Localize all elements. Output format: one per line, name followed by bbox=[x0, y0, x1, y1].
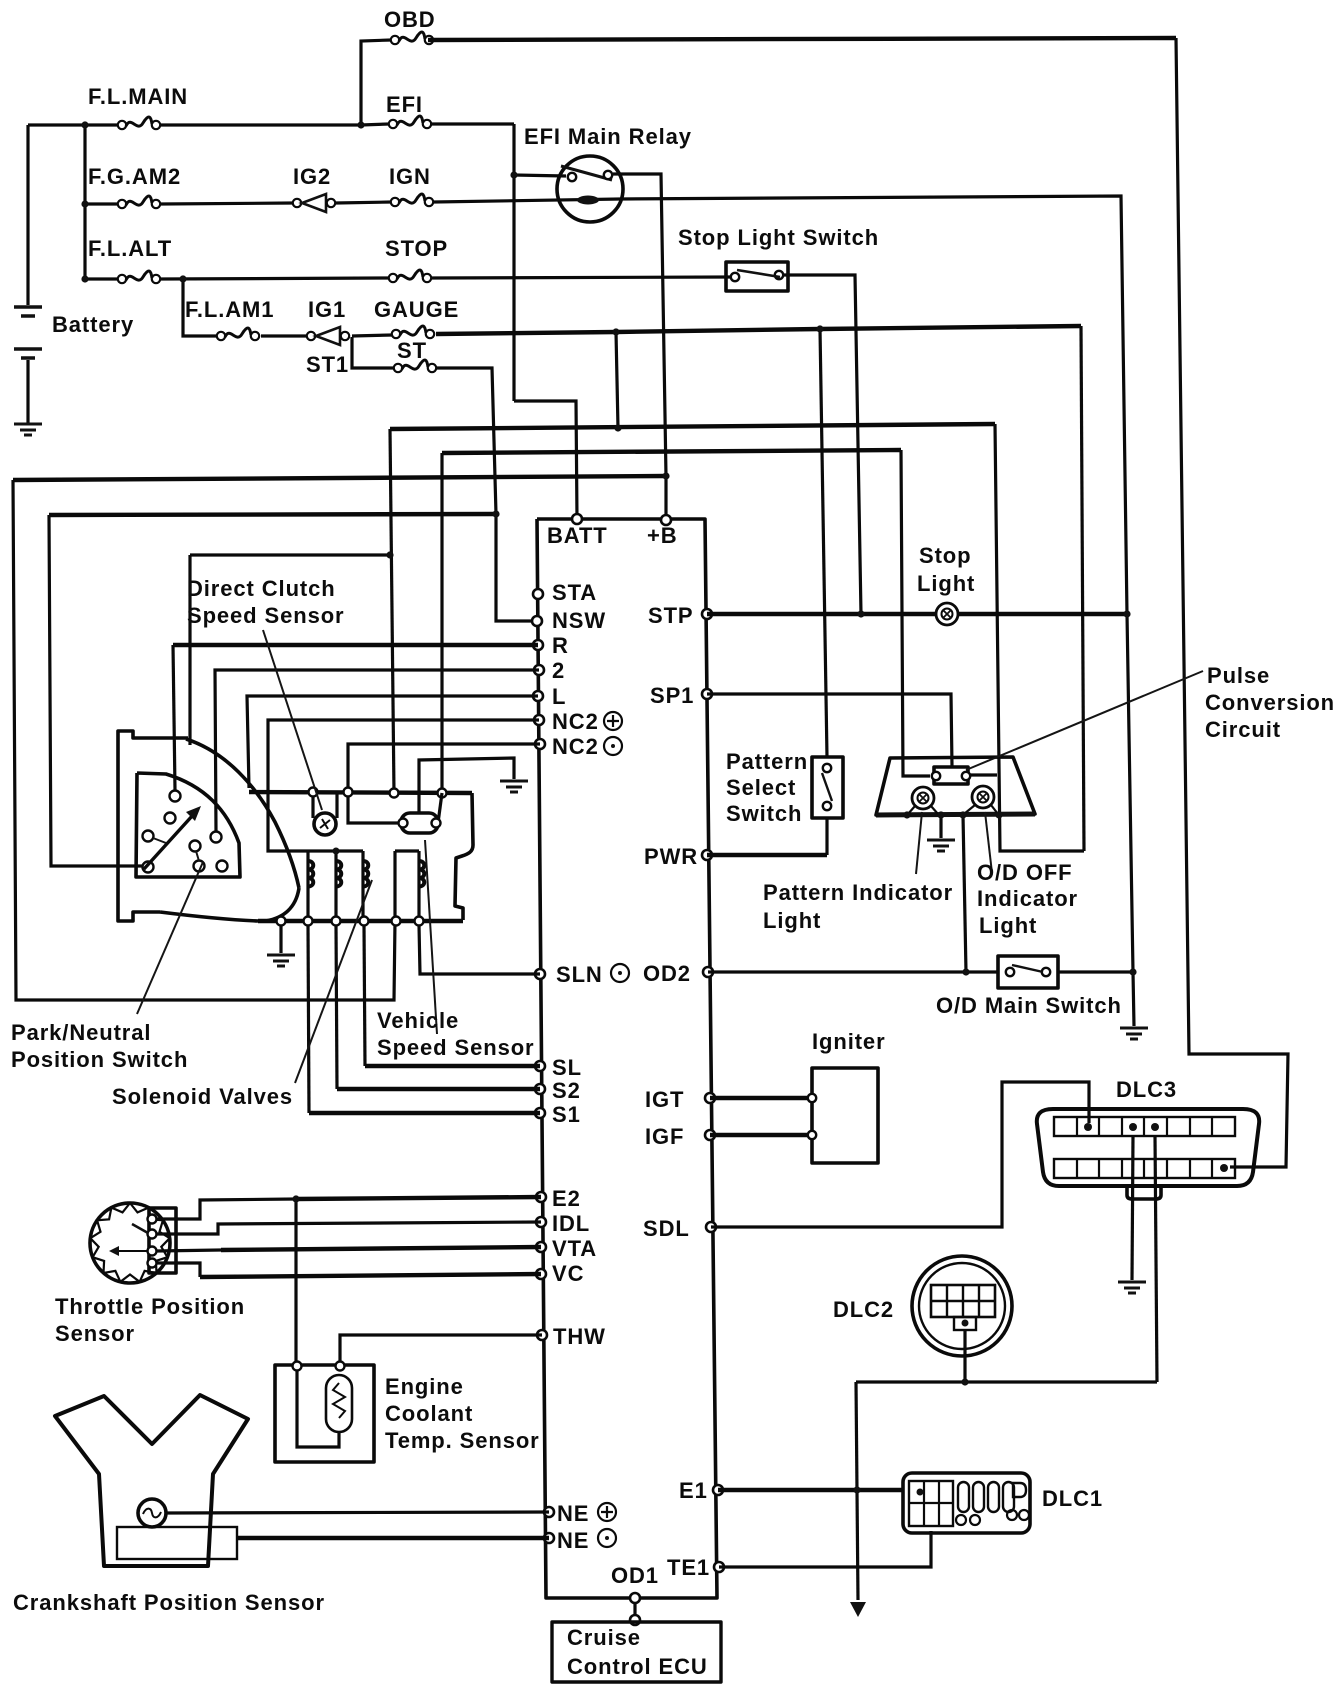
svg-text:SDL: SDL bbox=[643, 1216, 690, 1241]
svg-text:S2: S2 bbox=[552, 1078, 581, 1103]
svg-text:Solenoid Valves: Solenoid Valves bbox=[112, 1084, 293, 1109]
svg-text:IGN: IGN bbox=[389, 164, 431, 189]
svg-text:GAUGE: GAUGE bbox=[374, 297, 459, 322]
svg-text:STP: STP bbox=[648, 603, 694, 628]
svg-text:TE1: TE1 bbox=[667, 1555, 710, 1580]
svg-text:IDL: IDL bbox=[552, 1211, 590, 1236]
svg-text:SP1: SP1 bbox=[650, 683, 694, 708]
svg-text:Pulse: Pulse bbox=[1207, 663, 1270, 688]
svg-text:OD2: OD2 bbox=[643, 961, 691, 986]
svg-text:Pattern Indicator: Pattern Indicator bbox=[763, 880, 953, 905]
svg-text:L: L bbox=[552, 684, 566, 709]
svg-text:E1: E1 bbox=[679, 1478, 708, 1503]
svg-text:Light: Light bbox=[979, 913, 1037, 938]
svg-text:Crankshaft Position Sensor: Crankshaft Position Sensor bbox=[13, 1590, 325, 1615]
svg-text:Park/Neutral: Park/Neutral bbox=[11, 1020, 151, 1045]
svg-text:OBD: OBD bbox=[384, 7, 436, 32]
svg-text:F.L.MAIN: F.L.MAIN bbox=[88, 84, 188, 109]
svg-text:Vehicle: Vehicle bbox=[377, 1008, 459, 1033]
svg-text:IGF: IGF bbox=[645, 1124, 684, 1149]
svg-text:Stop Light Switch: Stop Light Switch bbox=[678, 225, 879, 250]
svg-text:IGT: IGT bbox=[645, 1087, 684, 1112]
svg-text:Conversion: Conversion bbox=[1205, 690, 1335, 715]
svg-text:DLC1: DLC1 bbox=[1042, 1486, 1103, 1511]
svg-text:Select: Select bbox=[726, 775, 796, 800]
svg-text:NSW: NSW bbox=[552, 608, 606, 633]
svg-text:NE: NE bbox=[557, 1528, 589, 1553]
svg-text:NE: NE bbox=[557, 1501, 589, 1526]
svg-text:Stop: Stop bbox=[919, 543, 971, 568]
svg-text:ST1: ST1 bbox=[306, 352, 349, 377]
svg-text:Light: Light bbox=[917, 571, 975, 596]
svg-text:+B: +B bbox=[647, 523, 678, 548]
svg-text:Position Switch: Position Switch bbox=[11, 1047, 188, 1072]
svg-text:Control ECU: Control ECU bbox=[567, 1654, 708, 1679]
svg-text:Igniter: Igniter bbox=[812, 1029, 886, 1054]
svg-text:F.L.AM1: F.L.AM1 bbox=[185, 297, 274, 322]
svg-text:S1: S1 bbox=[552, 1102, 581, 1127]
svg-text:Cruise: Cruise bbox=[567, 1625, 641, 1650]
svg-text:EFI: EFI bbox=[386, 92, 423, 117]
svg-text:O/D Main Switch: O/D Main Switch bbox=[936, 993, 1122, 1018]
svg-text:Indicator: Indicator bbox=[977, 886, 1078, 911]
svg-text:NC2: NC2 bbox=[552, 709, 599, 734]
svg-text:PWR: PWR bbox=[644, 844, 698, 869]
svg-text:F.L.ALT: F.L.ALT bbox=[88, 236, 172, 261]
svg-text:Battery: Battery bbox=[52, 312, 134, 337]
svg-text:THW: THW bbox=[553, 1324, 606, 1349]
svg-text:Coolant: Coolant bbox=[385, 1401, 473, 1426]
svg-text:NC2: NC2 bbox=[552, 734, 599, 759]
svg-text:Light: Light bbox=[763, 908, 821, 933]
svg-text:F.G.AM2: F.G.AM2 bbox=[88, 164, 181, 189]
svg-text:O/D OFF: O/D OFF bbox=[977, 860, 1073, 885]
svg-text:Engine: Engine bbox=[385, 1374, 464, 1399]
svg-text:Throttle Position: Throttle Position bbox=[55, 1294, 245, 1319]
svg-text:Sensor: Sensor bbox=[55, 1321, 135, 1346]
svg-text:VC: VC bbox=[552, 1261, 584, 1286]
svg-text:Circuit: Circuit bbox=[1205, 717, 1281, 742]
svg-text:Speed Sensor: Speed Sensor bbox=[187, 603, 345, 628]
svg-text:IG2: IG2 bbox=[293, 164, 331, 189]
svg-text:Pattern: Pattern bbox=[726, 749, 808, 774]
svg-text:Speed Sensor: Speed Sensor bbox=[377, 1035, 535, 1060]
svg-text:OD1: OD1 bbox=[611, 1563, 659, 1588]
svg-text:STOP: STOP bbox=[385, 236, 448, 261]
svg-text:SL: SL bbox=[552, 1055, 582, 1080]
svg-text:ST: ST bbox=[397, 338, 427, 363]
svg-text:IG1: IG1 bbox=[308, 297, 346, 322]
svg-text:DLC3: DLC3 bbox=[1116, 1077, 1177, 1102]
svg-text:EFI Main Relay: EFI Main Relay bbox=[524, 124, 692, 149]
svg-text:SLN: SLN bbox=[556, 962, 603, 987]
svg-text:Temp. Sensor: Temp. Sensor bbox=[385, 1428, 540, 1453]
svg-text:STA: STA bbox=[552, 580, 597, 605]
svg-text:DLC2: DLC2 bbox=[833, 1297, 894, 1322]
svg-text:R: R bbox=[552, 633, 569, 658]
svg-text:Switch: Switch bbox=[726, 801, 802, 826]
svg-text:Direct Clutch: Direct Clutch bbox=[187, 576, 336, 601]
svg-text:BATT: BATT bbox=[547, 523, 608, 548]
svg-text:VTA: VTA bbox=[552, 1236, 597, 1261]
svg-text:E2: E2 bbox=[552, 1186, 581, 1211]
svg-text:2: 2 bbox=[552, 658, 565, 683]
